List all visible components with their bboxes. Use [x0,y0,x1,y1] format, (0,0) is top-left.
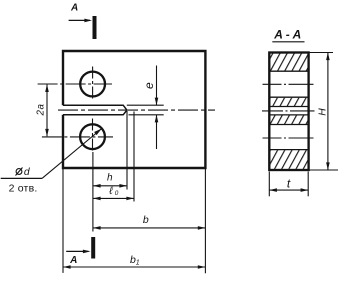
hole bottom center lines [42,136,113,138]
section cut mark bottom: arrow [66,250,90,266]
svg-text:2a: 2a [35,103,46,116]
section cut mark top: arrow [69,3,92,23]
extension line from slot tip for h [126,111,128,190]
svg-text:0: 0 [115,190,119,197]
label diameter d, 2 holes [1,167,42,195]
dimension b [93,214,205,230]
svg-text:1: 1 [136,260,140,267]
section bottom edge extension for H [309,169,338,171]
section center line stubs [262,84,315,138]
section hatched band 4 (bottom) [270,150,307,169]
extension line plate left edge down [62,169,64,273]
svg-text:A: A [70,3,78,14]
svg-text:ℓ: ℓ [108,185,113,197]
dimension H [318,53,330,171]
section hatched band 1 (top) [270,54,307,71]
section cut mark top: bar [93,16,97,39]
svg-text:H: H [318,108,329,116]
dimension b1 [63,254,205,269]
svg-text:A - A: A - A [273,28,301,42]
hole bottom (circle) [80,124,105,149]
section inner lines (hole/slot boundaries) [269,71,308,149]
svg-text:e: e [142,82,156,89]
svg-text:A: A [69,255,77,266]
section top edge extension for H [309,52,333,54]
plate outline (front view) [63,51,205,168]
section cut mark bottom: bar [91,237,95,259]
extension line plate right edge down [204,169,206,273]
svg-text:h: h [107,173,113,184]
dimension h [93,173,127,188]
hole top center lines [38,83,112,85]
section hatched band 3 [270,115,307,124]
dimension 2a [35,84,48,136]
svg-text:2 отв.: 2 отв. [9,183,38,195]
extension line for l0 [133,112,135,202]
dimension t [269,172,308,197]
slot center line [58,109,215,111]
section rectangle outline [269,53,308,171]
svg-text:d: d [24,167,30,178]
hole top (circle) [80,72,105,97]
section view title A - A [272,28,304,42]
extension line hole axis (below plate) [92,152,94,232]
section hatched band 2 [270,98,307,106]
slot (notch) edges [63,105,127,115]
leader line to bottom hole [42,129,102,179]
dimension e [127,66,164,150]
dimension l0 [93,185,134,200]
svg-text:b: b [143,214,149,226]
